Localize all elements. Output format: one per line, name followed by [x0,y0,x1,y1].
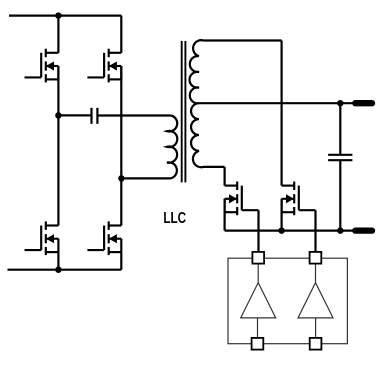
wire: SR1 source to output negative rail [224,199,226,231]
wire: secondary center tap to output positive [199,102,355,104]
wire: right leg Q2 source to Q4 drain [120,66,122,226]
wire: Q3 source to negative input rail [57,252,59,270]
transformer core line right [184,41,186,182]
inductor: transformer primary winding [167,116,177,179]
svg-text:LLC: LLC [163,210,186,227]
transistor Q3 [25,221,59,255]
op-amp driver 1 [241,264,276,338]
node: junction rail / Q1 drain [55,12,62,19]
wire: Q1 drain drop from rail [57,16,59,53]
driver IC box [228,258,347,344]
wire: left leg Q1 source to Q3 drain [57,66,59,226]
pin pad: driver bottom 1 [252,338,264,350]
pin pad: driver input 1 [252,252,264,264]
transistor Q4 [87,221,121,255]
wire: DC input negative rail [8,269,122,271]
wire: Q4 source to negative input rail [120,252,122,270]
capacitor Cr resonant plate right [96,108,98,124]
wire: output negative rail [225,230,355,232]
pin pad: driver bottom 2 [310,338,322,350]
node: junction primary return / right leg [118,175,125,182]
transformer core line left [181,41,183,182]
wire: SR2 gate to driver [314,210,316,252]
wire: output capacitor to negative rail [339,160,341,230]
node: junction output capacitor negative [337,227,344,234]
transistor SR1 sync rectifier [225,182,259,216]
capacitor Co output plate bottom [328,159,352,161]
node: junction Q3 source / negative input rail [55,266,62,273]
wire: positive rail to output capacitor [339,103,341,155]
transistor Q1 [25,49,59,83]
terminal: output positive [355,100,372,106]
wire: SR1 gate to driver [257,210,259,252]
wire: DC input positive rail [9,15,121,17]
terminal: output negative [355,227,372,233]
wire: secondary bottom to SR1 drain [224,167,226,186]
wire: midpoint A to resonant capacitor [58,114,90,116]
inductor: secondary winding lower half [191,103,225,167]
transistor Q2 [87,49,121,83]
op-amp driver 2 [298,264,333,338]
wire: secondary top to SR2 drain [281,41,283,186]
capacitor Co output plate top [328,154,352,156]
wire: Q2 drain drop from rail [120,16,122,53]
node: half-bridge A midpoint junction [55,112,62,119]
wire: resonant capacitor to primary top [98,114,171,116]
transistor SR2 sync rectifier [282,182,316,216]
node: junction SR2 source / negative rail [278,227,285,234]
inductor: secondary winding upper half [190,40,282,103]
node: junction output capacitor positive [337,100,344,107]
pin pad: driver input 2 [310,252,322,264]
wire: primary bottom return to right leg [121,177,170,179]
wire: SR2 source to output negative rail [281,199,283,231]
capacitor Cr resonant plate left [90,108,92,124]
